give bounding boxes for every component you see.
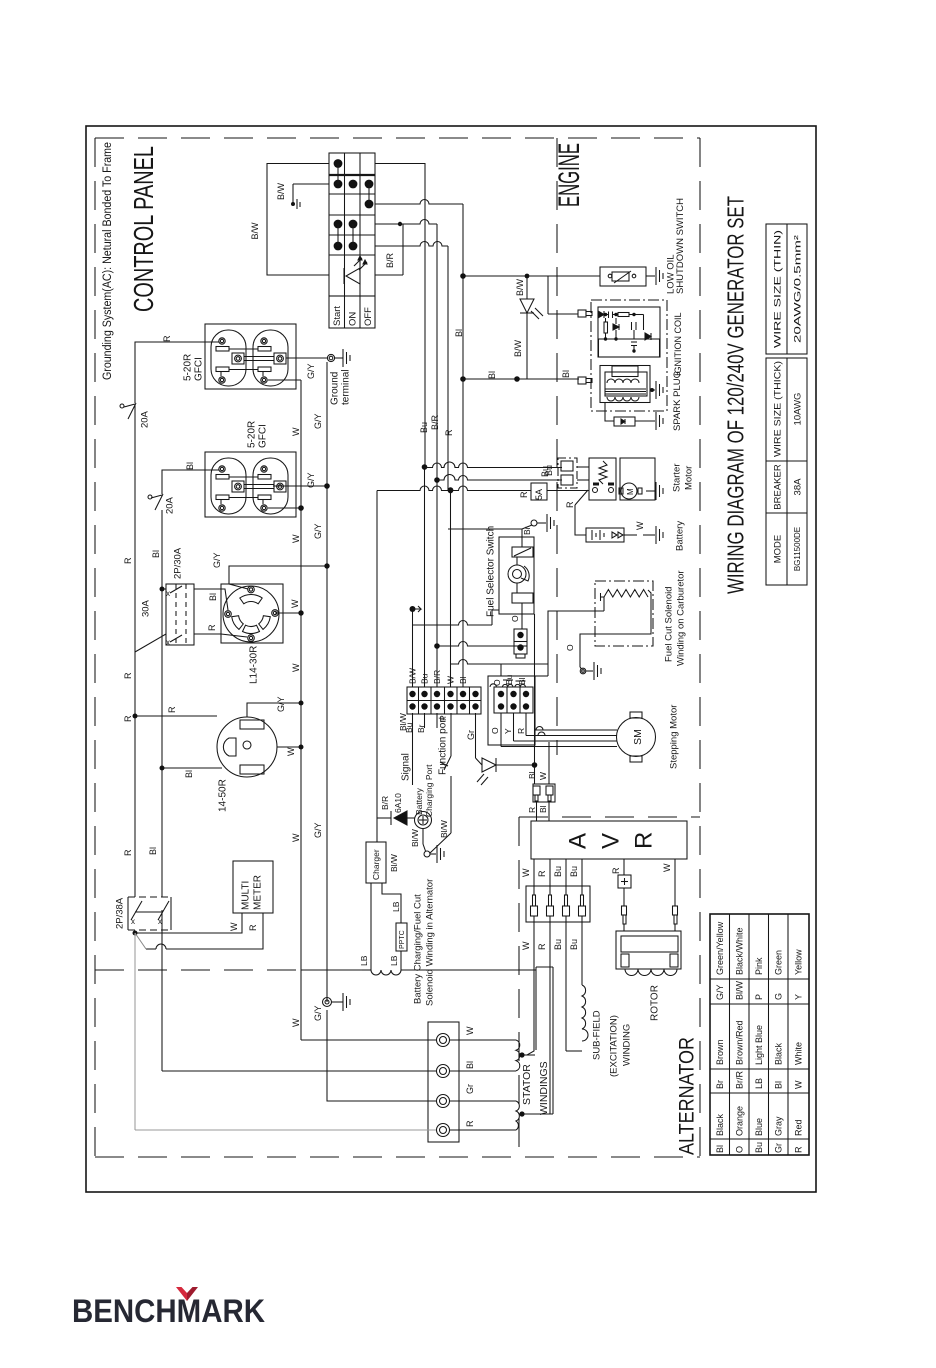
svg-text:R: R <box>516 728 526 734</box>
svg-text:20A: 20A <box>139 410 150 428</box>
svg-text:G/Y: G/Y <box>313 523 323 539</box>
svg-text:W: W <box>794 1080 804 1089</box>
svg-text:MODE: MODE <box>772 535 783 564</box>
svg-text:Pink: Pink <box>754 957 764 975</box>
svg-text:SM: SM <box>632 729 644 745</box>
svg-text:W: W <box>291 534 301 543</box>
svg-text:Bl: Bl <box>527 771 537 779</box>
svg-text:R: R <box>611 867 621 874</box>
svg-text:Bl: Bl <box>561 370 571 378</box>
svg-text:GFCI: GFCI <box>258 424 269 448</box>
svg-text:Green/Yellow: Green/Yellow <box>715 921 725 975</box>
svg-text:Bl: Bl <box>148 847 158 855</box>
svg-text:Battery: Battery <box>674 521 685 551</box>
svg-text:W: W <box>291 1018 301 1027</box>
svg-text:R: R <box>123 557 133 564</box>
svg-text:14-50R: 14-50R <box>218 779 229 812</box>
svg-text:Bu: Bu <box>504 674 514 685</box>
svg-text:Fuel Cut Solenoid: Fuel Cut Solenoid <box>663 586 674 662</box>
svg-text:W: W <box>662 863 672 872</box>
svg-text:W: W <box>521 941 531 950</box>
svg-text:G/Y: G/Y <box>313 1005 323 1021</box>
svg-text:Gr: Gr <box>466 730 476 740</box>
svg-text:Y: Y <box>794 994 804 1000</box>
svg-text:Bl: Bl <box>208 593 218 601</box>
svg-text:O: O <box>565 644 575 651</box>
svg-text:Bu: Bu <box>419 422 429 433</box>
svg-text:2P/38A: 2P/38A <box>114 897 125 929</box>
svg-text:OFF: OFF <box>363 307 374 326</box>
svg-text:6A10: 6A10 <box>393 793 403 813</box>
svg-text:5A: 5A <box>534 489 544 500</box>
svg-text:Bu: Bu <box>754 1142 764 1153</box>
svg-text:Black: Black <box>715 1113 725 1136</box>
svg-text:Blue: Blue <box>754 1118 764 1136</box>
svg-text:W: W <box>290 599 300 608</box>
svg-text:Bl: Bl <box>151 550 161 558</box>
svg-text:WIRING DIAGRAM OF 120/240V GEN: WIRING DIAGRAM OF 120/240V GENERATOR SET <box>722 196 748 594</box>
svg-text:2P/30A: 2P/30A <box>172 547 183 579</box>
svg-text:R: R <box>794 1146 804 1153</box>
svg-text:(EXCITATION): (EXCITATION) <box>608 1015 619 1077</box>
svg-text:LB: LB <box>359 955 369 966</box>
svg-text:Start: Start <box>332 306 343 326</box>
svg-text:Brown: Brown <box>715 1039 725 1065</box>
svg-text:R: R <box>123 715 133 722</box>
svg-text:WIRE SIZE (THICK): WIRE SIZE (THICK) <box>772 361 783 457</box>
svg-text:Bl: Bl <box>185 462 195 470</box>
svg-text:Stepping Motor: Stepping Motor <box>668 705 679 769</box>
svg-text:G/Y: G/Y <box>212 552 222 568</box>
svg-text:Bu: Bu <box>544 465 554 476</box>
svg-text:G/Y: G/Y <box>306 363 316 379</box>
svg-text:Motor: Motor <box>683 466 694 490</box>
svg-text:White: White <box>794 1042 804 1065</box>
svg-text:Bl/W: Bl/W <box>734 980 744 1000</box>
svg-text:R: R <box>444 429 454 436</box>
svg-text:Br: Br <box>522 526 532 535</box>
svg-text:Red: Red <box>794 1119 804 1136</box>
svg-text:L14-30R: L14-30R <box>249 646 260 684</box>
svg-text:Starter: Starter <box>671 463 682 492</box>
svg-text:P: P <box>754 994 764 1000</box>
svg-text:Brown/Red: Brown/Red <box>734 1020 744 1065</box>
svg-text:Function port: Function port <box>438 716 449 775</box>
svg-text:G/Y: G/Y <box>313 413 323 429</box>
svg-text:Bl/W: Bl/W <box>439 820 449 838</box>
svg-text:G/Y: G/Y <box>715 984 725 1000</box>
svg-text:METER: METER <box>253 875 264 910</box>
svg-text:R: R <box>248 924 258 931</box>
svg-text:R: R <box>631 832 658 849</box>
svg-text:Bl: Bl <box>773 1081 783 1089</box>
svg-text:Charging Port: Charging Port <box>424 764 434 817</box>
svg-text:W: W <box>286 747 296 756</box>
svg-text:ALTERNATOR: ALTERNATOR <box>676 1037 699 1155</box>
svg-text:B/W: B/W <box>515 278 525 296</box>
svg-text:R: R <box>207 624 217 631</box>
svg-text:Light Blue: Light Blue <box>754 1025 764 1065</box>
svg-text:Fuel Selector Switch: Fuel Selector Switch <box>486 526 497 617</box>
svg-text:R: R <box>519 491 529 498</box>
svg-text:G: G <box>773 993 783 1000</box>
svg-text:B/W: B/W <box>513 339 523 357</box>
svg-text:ON: ON <box>347 312 358 326</box>
svg-text:W: W <box>521 868 531 877</box>
svg-text:BENCHMARK: BENCHMARK <box>72 1293 265 1329</box>
svg-text:B/W: B/W <box>250 222 260 240</box>
svg-text:Bl: Bl <box>184 770 194 778</box>
svg-text:PPTC: PPTC <box>399 930 406 949</box>
svg-text:R: R <box>167 706 177 713</box>
svg-text:x: x <box>158 917 162 926</box>
svg-text:CONTROL PANEL: CONTROL PANEL <box>128 146 159 312</box>
svg-text:G/Y: G/Y <box>276 696 286 712</box>
svg-text:R: R <box>527 807 537 813</box>
svg-text:Gray: Gray <box>773 1116 783 1136</box>
svg-text:Black/White: Black/White <box>734 927 744 975</box>
svg-text:LB: LB <box>754 1078 764 1089</box>
svg-text:Gr: Gr <box>773 1143 783 1153</box>
svg-text:Orange: Orange <box>734 1106 744 1136</box>
svg-text:Battery Charging/Fuel Cut: Battery Charging/Fuel Cut <box>412 894 423 1004</box>
svg-text:Bl: Bl <box>517 677 527 685</box>
svg-text:R: R <box>565 501 575 508</box>
svg-text:SUB-FIELD: SUB-FIELD <box>591 1010 602 1060</box>
svg-text:Bl: Bl <box>715 1145 725 1153</box>
svg-text:30A: 30A <box>140 599 151 617</box>
svg-text:5-20R: 5-20R <box>247 421 258 448</box>
svg-text:Bl: Bl <box>454 329 464 337</box>
svg-text:R: R <box>537 943 547 950</box>
svg-text:Bu: Bu <box>553 866 563 877</box>
svg-text:V: V <box>598 833 625 849</box>
svg-text:R: R <box>465 1120 475 1127</box>
svg-text:LB: LB <box>391 901 401 912</box>
svg-text:x: x <box>166 589 170 598</box>
svg-text:R: R <box>162 335 172 342</box>
svg-text:R: R <box>123 849 133 856</box>
svg-text:R: R <box>537 870 547 877</box>
svg-text:Bl: Bl <box>465 1061 475 1069</box>
svg-text:W: W <box>229 922 239 931</box>
svg-text:Green: Green <box>773 950 783 975</box>
svg-text:Yellow: Yellow <box>794 949 804 975</box>
svg-text:Grounding System(AC): Netural: Grounding System(AC): Netural Bonded To … <box>102 142 114 380</box>
svg-text:G/Y: G/Y <box>313 822 323 838</box>
svg-text:Bl: Bl <box>538 805 548 813</box>
svg-text:Ground: Ground <box>330 372 341 405</box>
svg-text:Signal: Signal <box>401 753 412 781</box>
svg-text:Battery: Battery <box>414 787 424 815</box>
svg-text:M: M <box>626 488 635 495</box>
svg-text:LB: LB <box>389 955 399 966</box>
svg-text:Solenoid Winding in Alternator: Solenoid Winding in Alternator <box>424 879 435 1006</box>
svg-text:10AWG: 10AWG <box>792 393 803 426</box>
svg-text:BG11500DE: BG11500DE <box>793 527 802 571</box>
svg-text:W: W <box>291 427 301 436</box>
svg-text:O: O <box>492 679 502 686</box>
svg-text:O: O <box>510 615 520 622</box>
svg-text:WIRE SIZE (THIN): WIRE SIZE (THIN) <box>772 230 783 348</box>
svg-text:O: O <box>490 727 500 734</box>
svg-text:STATOR: STATOR <box>521 1064 533 1105</box>
svg-text:Bu: Bu <box>569 939 579 950</box>
svg-text:Y: Y <box>503 728 513 734</box>
svg-text:SPARK PLUG: SPARK PLUG <box>672 371 683 431</box>
svg-text:Charger: Charger <box>371 849 381 880</box>
svg-text:terminal: terminal <box>341 369 352 405</box>
svg-text:ROTOR: ROTOR <box>650 985 661 1021</box>
svg-text:5-20R: 5-20R <box>183 354 194 381</box>
svg-text:Black: Black <box>773 1042 783 1065</box>
svg-text:IGNITION COIL: IGNITION COIL <box>673 312 683 376</box>
svg-text:SHUTDOWN SWITCH: SHUTDOWN SWITCH <box>675 198 686 294</box>
svg-text:38A: 38A <box>792 478 803 496</box>
svg-text:Bl: Bl <box>487 371 497 379</box>
svg-text:20A: 20A <box>164 496 175 514</box>
svg-text:Bu: Bu <box>553 939 563 950</box>
svg-text:B/W: B/W <box>276 182 286 200</box>
svg-text:B/R: B/R <box>385 252 395 268</box>
svg-text:W: W <box>291 663 301 672</box>
svg-text:Bl/W: Bl/W <box>389 854 399 872</box>
svg-text:Bl/W: Bl/W <box>410 829 420 847</box>
svg-text:MULTI: MULTI <box>241 881 252 910</box>
svg-text:WINDING: WINDING <box>621 1024 632 1066</box>
svg-text:GFCI: GFCI <box>194 357 205 381</box>
svg-text:W: W <box>635 521 645 530</box>
svg-text:R: R <box>123 672 133 679</box>
svg-text:W: W <box>291 833 301 842</box>
svg-text:Winding on Carburetor: Winding on Carburetor <box>675 570 686 666</box>
svg-text:Bu: Bu <box>569 866 579 877</box>
svg-text:Gr: Gr <box>465 1084 475 1094</box>
svg-text:O: O <box>734 1146 744 1153</box>
svg-text:20AWG/0.5mm²: 20AWG/0.5mm² <box>792 235 803 343</box>
svg-text:W: W <box>465 1026 475 1035</box>
svg-text:B/R: B/R <box>380 796 390 810</box>
svg-text:x: x <box>131 917 135 926</box>
svg-text:B/R: B/R <box>430 414 440 430</box>
svg-text:ENGINE: ENGINE <box>553 143 586 207</box>
svg-text:BREAKER: BREAKER <box>772 464 783 510</box>
svg-text:A: A <box>565 833 592 849</box>
svg-text:Br/R: Br/R <box>734 1070 744 1089</box>
svg-text:x: x <box>166 638 170 647</box>
svg-text:WINDINGS: WINDINGS <box>538 1061 550 1115</box>
svg-text:Br: Br <box>715 1080 725 1089</box>
svg-text:W: W <box>538 772 548 780</box>
